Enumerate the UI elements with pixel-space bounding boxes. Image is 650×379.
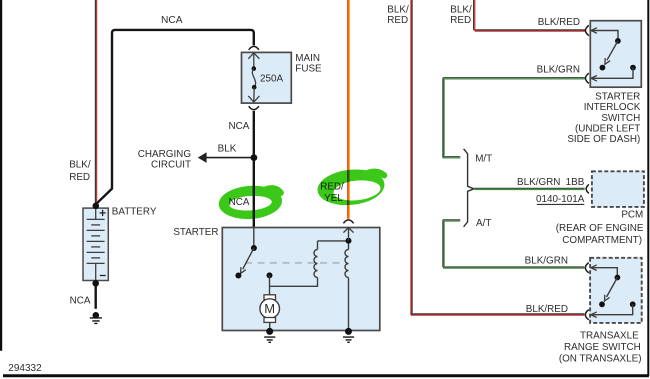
wire: NCA from fuse to starter xyxy=(253,111,255,228)
label TRANSAXLE RANGE SWITCH (ON TRANSAXLE) xyxy=(559,331,642,365)
node: motor ground junction xyxy=(266,328,273,335)
svg-text:NCA: NCA xyxy=(229,121,250,132)
svg-text:(UNDER LEFT: (UNDER LEFT xyxy=(575,123,640,134)
connector arc (interlock top) xyxy=(585,25,588,35)
svg-text:(ON TRANSAXLE): (ON TRANSAXLE) xyxy=(559,353,642,364)
wire: RED/YEL to starter xyxy=(348,0,349,219)
label STARTER INTERLOCK SWITCH (UNDER LEFT SIDE OF DASH) xyxy=(567,91,640,145)
connector arc (PCM) xyxy=(586,184,589,193)
switch blade with arrow xyxy=(243,248,254,269)
svg-text:BLK: BLK xyxy=(218,144,237,155)
svg-text:(REAR OF ENGINE: (REAR OF ENGINE xyxy=(556,223,644,234)
svg-text:PCM: PCM xyxy=(621,210,643,221)
pull-in coil xyxy=(317,241,319,250)
svg-text:STARTER: STARTER xyxy=(173,227,218,238)
svg-text:BLK/: BLK/ xyxy=(69,160,91,171)
fuse element 250A xyxy=(252,66,257,71)
svg-text:1BB: 1BB xyxy=(566,177,585,188)
transaxle terminal arrow (top) xyxy=(591,265,597,271)
dashed mechanical link xyxy=(245,262,346,264)
svg-text:NCA: NCA xyxy=(70,295,91,306)
interlock terminal wire (bottom) xyxy=(591,68,633,79)
svg-text:SWITCH: SWITCH xyxy=(601,113,640,124)
node: interlock contact (right) xyxy=(630,65,636,71)
svg-text:BLK/GRN: BLK/GRN xyxy=(537,64,580,75)
battery + sign xyxy=(100,210,106,216)
node: junction dot at charging tap xyxy=(251,154,258,161)
wire: BLK/GRN A/T branch to transaxle switch xyxy=(443,220,585,268)
wire: NCA battery to ground xyxy=(94,283,96,309)
starter interlock switch box xyxy=(590,21,641,88)
svg-text:A/T: A/T xyxy=(476,218,491,229)
node: motor branch junction xyxy=(267,272,273,278)
svg-text:MAIN: MAIN xyxy=(295,53,320,64)
svg-text:CIRCUIT: CIRCUIT xyxy=(151,159,191,170)
label PCM (REAR OF ENGINE COMPARTMENT) xyxy=(556,210,644,246)
svg-text:BLK/RED: BLK/RED xyxy=(526,304,568,315)
node: battery + terminal xyxy=(93,203,100,210)
transaxle range switch box (dashed) xyxy=(590,258,642,323)
battery internal ticks and plates xyxy=(87,208,105,280)
svg-text:BLK/GRN: BLK/GRN xyxy=(525,256,568,267)
battery - sign xyxy=(100,275,106,277)
node: interlock pivot xyxy=(615,38,621,44)
transaxle blade with arrow xyxy=(607,278,618,298)
node: transaxle contact (left) xyxy=(599,301,605,307)
svg-text:BLK/: BLK/ xyxy=(387,4,409,15)
svg-text:COMPARTMENT): COMPARTMENT) xyxy=(562,235,642,246)
wire: BLK/RED battery feed (left vertical) xyxy=(95,0,96,204)
wire junction to motor and to pull-in coil bottom xyxy=(270,275,318,294)
starter terminal arrow xyxy=(343,228,353,233)
battery xyxy=(83,208,108,280)
brace (M/T, A/T selector) xyxy=(464,149,474,227)
ground (motor) xyxy=(264,337,275,342)
charging circuit arrow, label BLK xyxy=(206,157,250,159)
fuse terminal arrow (top) xyxy=(248,53,259,59)
starter switch: feed into pivot xyxy=(253,228,255,247)
svg-text:294332: 294332 xyxy=(8,363,42,374)
node: transaxle pivot xyxy=(615,275,621,281)
svg-text:RED: RED xyxy=(387,15,408,26)
svg-text:M: M xyxy=(264,301,275,316)
interlock terminal arrow (top) xyxy=(591,28,597,34)
node: coil ground junction xyxy=(345,328,352,335)
ground (coil) xyxy=(343,337,354,342)
svg-text:BLK/GRN: BLK/GRN xyxy=(517,177,560,188)
frame xyxy=(0,0,2,351)
svg-text:BLK/RED: BLK/RED xyxy=(538,17,580,28)
PCM box (dashed) xyxy=(592,171,644,207)
svg-text:NCA: NCA xyxy=(161,15,183,26)
node: battery - terminal xyxy=(92,280,99,287)
node: switch contact xyxy=(235,273,241,279)
connector arc (interlock bottom) xyxy=(585,73,588,83)
ground (battery) xyxy=(90,312,102,323)
transaxle terminal wire (bottom) xyxy=(591,304,633,314)
node: hold-in coil junction xyxy=(346,238,352,244)
svg-text:TRANSAXLE: TRANSAXLE xyxy=(580,331,639,342)
wire: NCA from battery to main fuse (top loop) xyxy=(96,30,254,204)
svg-text:250A: 250A xyxy=(260,74,283,85)
svg-text:FUSE: FUSE xyxy=(295,64,322,75)
wire: BLK/RED to transaxle range switch xyxy=(411,0,585,315)
connector arc (starter feed) xyxy=(343,220,353,223)
interlock blade with arrow xyxy=(607,41,618,60)
fuse terminal arrow (bottom) xyxy=(253,87,255,102)
wire: BLK/GRN interlock to M/T brace xyxy=(443,78,585,158)
coil top link wire xyxy=(318,240,349,242)
connector arc (transaxle bottom) xyxy=(585,310,588,320)
svg-text:BATTERY: BATTERY xyxy=(112,207,157,218)
svg-text:INTERLOCK: INTERLOCK xyxy=(584,102,641,113)
connector arc (transaxle top) xyxy=(585,263,588,273)
node: transaxle contact (right) xyxy=(630,301,636,307)
svg-text:RED: RED xyxy=(69,172,90,183)
svg-text:SIDE OF DASH): SIDE OF DASH) xyxy=(567,134,640,145)
annotation: green marker circle around NCA xyxy=(218,184,284,222)
svg-text:RANGE SWITCH: RANGE SWITCH xyxy=(564,342,641,353)
starter box xyxy=(222,228,379,331)
svg-text:RED: RED xyxy=(450,15,471,26)
node: switch pivot xyxy=(251,245,257,251)
connector arc (fuse top) xyxy=(249,46,259,49)
motor M xyxy=(264,295,276,300)
svg-text:BLK/: BLK/ xyxy=(450,4,472,15)
annotation: green marker circle around RED/YEL xyxy=(316,166,387,208)
node: interlock contact (left) xyxy=(600,65,606,71)
svg-text:0140-101A: 0140-101A xyxy=(536,194,585,205)
main fuse box xyxy=(242,52,292,103)
connector arc (fuse bottom) xyxy=(249,106,259,109)
wire: BLK/RED to starter interlock switch xyxy=(474,0,585,31)
svg-text:M/T: M/T xyxy=(475,154,492,165)
wire: BLK/GRN 1BB to PCM xyxy=(474,188,584,189)
hold-in coil xyxy=(348,241,350,250)
svg-text:STARTER: STARTER xyxy=(595,91,640,102)
